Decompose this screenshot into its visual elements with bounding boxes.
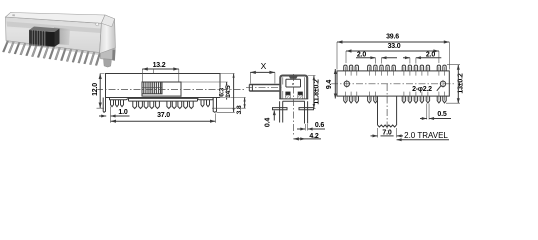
svg-text:0.4: 0.4 — [264, 118, 271, 127]
svg-text:2-φ2.2: 2-φ2.2 — [412, 86, 432, 93]
svg-text:13.2: 13.2 — [153, 62, 166, 69]
svg-text:11.8±0.2: 11.8±0.2 — [314, 79, 321, 105]
svg-text:33.0: 33.0 — [388, 43, 401, 50]
svg-text:12.0: 12.0 — [92, 83, 99, 96]
svg-text:9.4: 9.4 — [326, 80, 333, 89]
svg-text:14.5: 14.5 — [225, 85, 232, 98]
svg-text:37.0: 37.0 — [157, 112, 170, 119]
svg-text:39.6: 39.6 — [386, 33, 399, 40]
svg-text:0.6: 0.6 — [315, 122, 324, 129]
svg-text:X: X — [261, 61, 267, 71]
svg-text:1.0: 1.0 — [118, 109, 127, 116]
svg-text:0.5: 0.5 — [437, 111, 446, 118]
svg-text:3.8: 3.8 — [236, 105, 243, 114]
svg-text:2.0 TRAVEL: 2.0 TRAVEL — [404, 131, 448, 140]
